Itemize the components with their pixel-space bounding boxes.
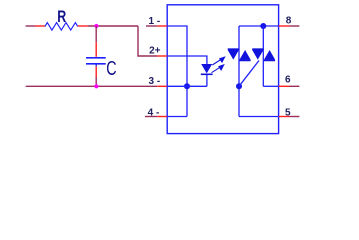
node B junction dot bbox=[94, 84, 98, 88]
emission arrow 1 bbox=[212, 57, 224, 65]
triac Q2 triangle up bbox=[264, 50, 275, 60]
svg-text:R: R bbox=[57, 8, 66, 26]
triac gate diagonal bbox=[239, 61, 259, 87]
phototriac Q1 triangle down bbox=[228, 50, 239, 60]
pin 5 bbox=[279, 116, 290, 118]
svg-text:C: C bbox=[106, 57, 116, 80]
phototriac Q1 bar bottom bbox=[239, 59, 250, 61]
node pin8 junction dot bbox=[260, 23, 266, 29]
internal rail pin1 to anode bbox=[167, 26, 187, 117]
svg-text:3 -: 3 - bbox=[149, 76, 161, 87]
node LED junction dot bbox=[184, 83, 190, 89]
wire pin6 stub bbox=[290, 85, 300, 87]
wire pin1 stub bbox=[146, 25, 157, 27]
resistor R pin left bbox=[35, 25, 45, 27]
wire pin5 stub bbox=[290, 116, 300, 118]
phototriac Q1 bar top bbox=[228, 48, 239, 50]
resistor R pin right bbox=[78, 25, 88, 27]
LED D1 triangle bbox=[201, 64, 212, 73]
wire resistor to node A bbox=[88, 25, 138, 27]
node triac gate junction dot bbox=[236, 83, 242, 89]
capacitor C pin top bbox=[95, 42, 97, 57]
phototriac vertical A bbox=[238, 26, 240, 117]
pin 6 bbox=[279, 85, 290, 87]
wire pin8 stub bbox=[290, 25, 300, 27]
node A junction dot bbox=[94, 24, 98, 28]
capacitor C pin bottom bbox=[95, 66, 97, 77]
svg-text:6: 6 bbox=[285, 75, 291, 86]
capacitor C lead bottom wire bbox=[95, 77, 97, 86]
internal rail pin8 bbox=[239, 25, 279, 27]
wire top-left net bbox=[26, 25, 35, 27]
triac Q2 bar bottom bbox=[264, 59, 275, 61]
internal rail pin3 to LED cathode bbox=[167, 85, 207, 87]
pin 8 bbox=[279, 25, 290, 27]
emission arrow 2 bbox=[212, 65, 224, 73]
pin 4 bbox=[157, 116, 167, 118]
optocoupler U1 box bbox=[167, 5, 278, 134]
triac vertical B bbox=[262, 26, 264, 86]
internal rail pin6 bbox=[263, 85, 278, 87]
svg-text:2+: 2+ bbox=[149, 46, 161, 57]
pin 2 bbox=[157, 55, 167, 57]
pin 3 bbox=[157, 85, 167, 87]
pin 1 bbox=[157, 25, 167, 27]
svg-text:8: 8 bbox=[286, 15, 292, 26]
phototriac Q1 triangle up bbox=[240, 50, 251, 60]
wire bottom-left net to pin3 bbox=[26, 85, 158, 87]
triac Q2 triangle down bbox=[252, 50, 263, 60]
svg-text:1 -: 1 - bbox=[149, 16, 161, 27]
capacitor C bbox=[86, 58, 106, 67]
wire vertical jog to pin2 row bbox=[138, 26, 157, 56]
internal rail pin4 bottom-left bbox=[167, 116, 187, 118]
wire pin4 stub bbox=[145, 116, 157, 118]
LED D1 cathode bar bbox=[201, 73, 213, 75]
capacitor C lead top wire bbox=[95, 26, 97, 42]
LED D1 cathode lead bbox=[206, 75, 208, 86]
internal rail bottom-right to pin5 bbox=[239, 116, 279, 118]
triac Q2 bar top bbox=[252, 48, 263, 50]
internal rail pin2 to LED bbox=[167, 56, 207, 64]
svg-text:4 -: 4 - bbox=[148, 107, 160, 118]
resistor R bbox=[45, 23, 78, 31]
